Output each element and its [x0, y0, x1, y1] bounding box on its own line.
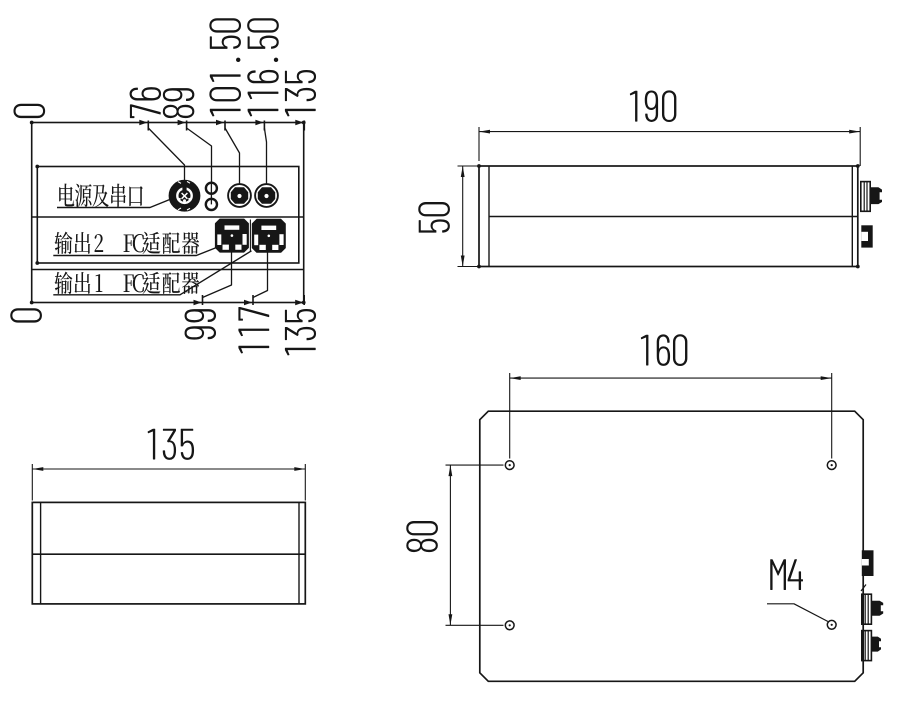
rear view: mid seam — [32, 553, 305, 555]
label 50 (rotated) — [418, 202, 450, 233]
indicator/screw circle lower — [206, 199, 217, 210]
node dots at frame corners — [30, 121, 34, 125]
text 输出1 FC适配器 — [55, 272, 73, 294]
rear view: body outline — [32, 502, 305, 604]
mounting hole top-left — [505, 461, 514, 470]
FC adapter (output 2), left — [216, 219, 249, 252]
leader 116.50 to port2 — [264, 128, 266, 184]
dim 80: dimension line with arrows — [449, 465, 451, 625]
aviation connector rim marks — [178, 181, 190, 210]
side view: right end-plate seam — [851, 166, 853, 267]
aviation connector center star — [179, 193, 190, 202]
label 89 (rotated) — [163, 88, 195, 118]
FC adapter (output 1), right — [252, 219, 285, 252]
label 160 — [641, 334, 688, 366]
indicator/screw circle upper — [206, 183, 217, 194]
bottom view: aviation connector (edge) flange — [862, 594, 872, 624]
label 80 (rotated) — [406, 521, 438, 552]
node dots at side view corners — [856, 164, 860, 168]
output port 2 (round, x=116.5) — [255, 184, 278, 207]
leader 76 to power connector — [148, 128, 184, 180]
front view: outer dimension frame — [32, 123, 304, 303]
side view: body outline — [479, 166, 858, 267]
mounting hole bottom-right (M4) — [827, 620, 836, 629]
label 135 (bottom, rotated) — [285, 309, 316, 355]
underline + leader to power connector — [57, 199, 171, 208]
label 135 — [148, 429, 194, 460]
bottom view: chamfered body outline — [480, 411, 863, 681]
side view: FC adapter (side) — [861, 225, 872, 247]
text 电源及串口 — [59, 183, 74, 206]
leader 89 to indicator — [187, 128, 212, 182]
dim 50: extension lines — [458, 165, 479, 167]
bottom view: FC connector 2 (edge) knob — [871, 637, 881, 652]
side view: left end-plate seam — [488, 166, 490, 267]
bottom view: FC connector block (edge) — [862, 550, 874, 576]
label 190 — [630, 90, 677, 122]
rear view: right seam — [298, 502, 300, 604]
dim 160: dimension line with arrows — [510, 377, 832, 379]
label 101.50 (rotated) — [209, 18, 241, 116]
leader 117 from FC adapter 1 — [253, 252, 268, 298]
front view: row divider (power/FC rows) — [32, 216, 304, 218]
dim 80: extension lines — [446, 464, 504, 466]
label 116.50 (rotated) — [247, 18, 279, 116]
label 99 (rotated) — [185, 309, 217, 340]
rear view: left seam — [40, 502, 42, 604]
seam between FC adapters — [249, 220, 251, 252]
aviation connector inner ring — [177, 189, 191, 203]
power/serial aviation connector body — [169, 180, 200, 211]
bottom view: FC connector 2 (edge) flange — [862, 631, 872, 661]
M4 leader — [767, 604, 828, 622]
ordinate ticks, top dimension line — [147, 121, 149, 131]
output port 1 (round, x=101.5) — [228, 184, 251, 207]
label 135 (top, rotated) — [285, 70, 316, 116]
side view: aviation connector (side) flange — [861, 182, 870, 212]
leader 99 from FC adapter 2 — [203, 252, 232, 298]
front view: lower horizontal line — [32, 269, 304, 271]
label 117 (rotated) — [238, 307, 269, 353]
dim 50: dimension line with arrows — [462, 166, 464, 267]
mounting hole top-right — [827, 461, 836, 470]
ordinate ticks, bottom dimension line — [202, 295, 204, 305]
front view: panel outline — [37, 167, 299, 264]
label M4 — [770, 559, 803, 590]
side view: aviation connector knob — [870, 187, 882, 204]
mounting hole bottom-left — [505, 621, 514, 630]
dim 135: extension lines — [31, 464, 33, 501]
label 0 (bottom left, rotated) — [10, 308, 42, 322]
label 76 (rotated) — [130, 87, 162, 118]
underline + leader to FC adapter 1 — [53, 251, 251, 295]
dim 160: extension lines — [509, 373, 511, 459]
bottom view: aviation connector (edge) knob — [871, 601, 883, 616]
dim 190: dimension line with arrows — [479, 131, 860, 133]
small edge mark — [861, 585, 866, 592]
dim 190: extension lines — [478, 127, 480, 161]
text 输出2 FC适配器 — [55, 232, 73, 254]
leader line through screws — [210, 182, 212, 204]
label 0 (top left, rotated) — [13, 104, 45, 118]
dim 135: dimension line with arrows — [32, 468, 305, 470]
underline + leader to FC adapter 2 — [53, 248, 216, 256]
leader 101.50 to port1 — [225, 128, 240, 184]
side view: mid seam — [489, 216, 858, 218]
